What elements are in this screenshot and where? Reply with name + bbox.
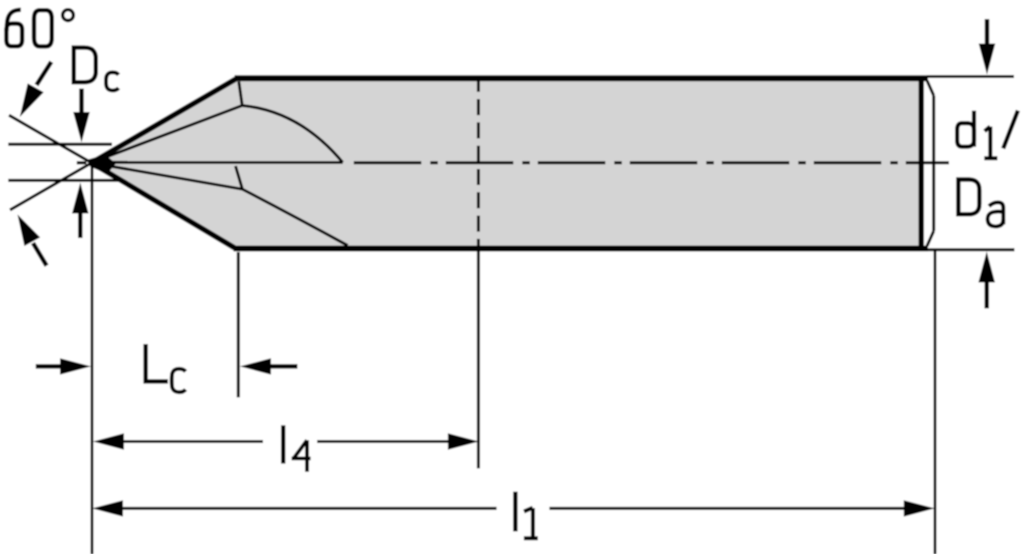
l1 left arrowhead [92,500,123,516]
end face right edge [932,96,935,232]
center flute line [92,161,343,164]
shank end chamfer edge (thick vertical) [918,79,924,248]
end face top chamfer [927,81,934,96]
l4 dimension line [120,440,263,443]
angle extension line lower-left (-30 deg) [10,157,101,210]
tip blob [88,155,116,175]
lower flute curve [242,189,347,245]
d1 top extension line [927,75,1014,78]
centerline dash-dot [354,161,949,164]
l4 left arrowhead [93,433,124,449]
60deg leader arrow [20,62,52,117]
lower flute heel line [236,166,243,189]
Dc upper arrow (down) [73,89,90,143]
end face strip (white) [921,78,934,249]
cone top edge [92,78,238,163]
Lc label [146,344,186,392]
body outline top edge [235,75,929,81]
Da bottom extension line [928,248,1015,251]
Dc lower arrow (up) [72,183,89,239]
end face bottom chamfer [927,231,934,246]
Lc right extension line [237,252,240,397]
Da label [958,180,1003,227]
lower angle leader arrow [18,215,47,266]
tip vertical extension line [91,164,94,554]
Dc lower extension line [8,179,118,182]
l4 label [281,425,285,463]
centerline short dash left of tip [77,161,87,164]
d1/ label [957,111,1018,159]
Da bottom arrow (up) [978,252,995,309]
angle extension line upper-left (30 deg) [9,115,101,168]
Lc left arrow [36,358,91,374]
Lc right arrow [240,358,298,374]
cone bottom edge [92,163,237,249]
l4 right extension line (solid below body) [477,248,480,468]
l1 label [513,492,517,532]
l4 right arrowhead [448,433,479,449]
60deg label [6,10,73,47]
tool body (grey fill) [92,77,922,249]
l1 right extension line [934,250,937,554]
body outline bottom edge [234,246,929,252]
l4 vertical dashed line through body [477,76,480,248]
d1 top arrow (down) [979,19,996,75]
upper flute heel line [239,82,242,106]
l1 right arrowhead [904,500,935,516]
lower flute edge line [92,163,242,189]
Dc upper extension line [8,143,112,146]
upper flute edge line [92,106,242,163]
upper flute arc [242,106,343,163]
Dc label [74,48,119,91]
l1 dimension line [119,507,497,510]
